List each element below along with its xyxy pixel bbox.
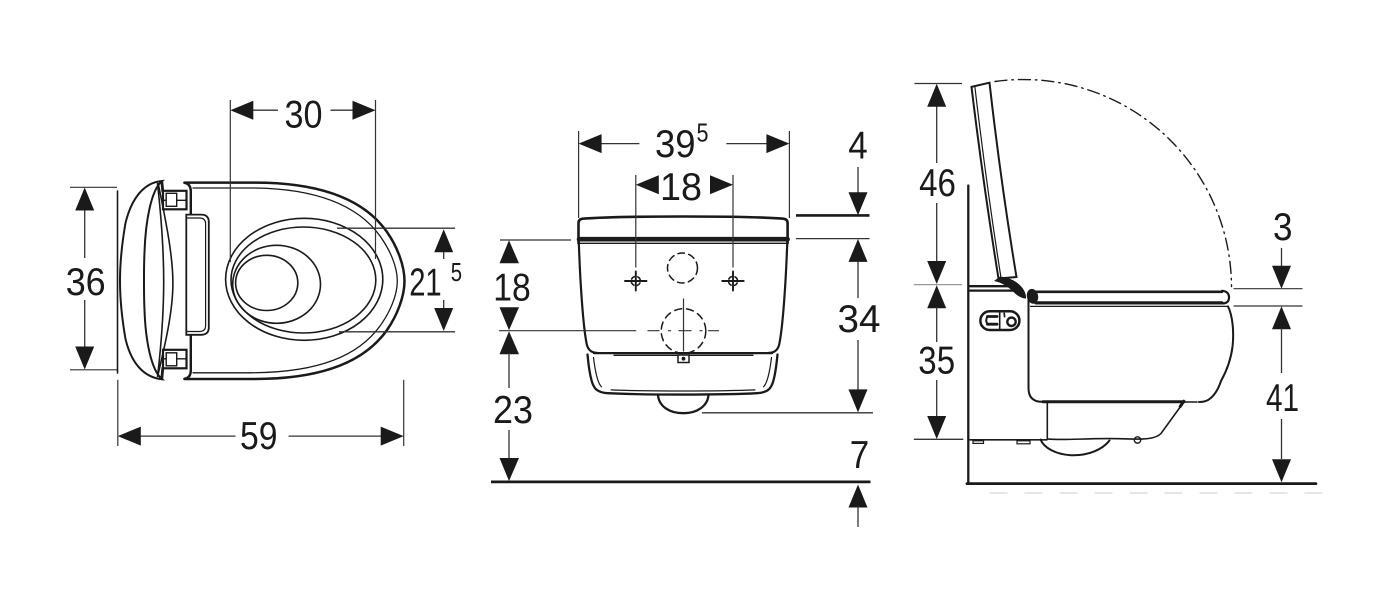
hinge bottom — [163, 350, 187, 369]
water supply dashed circle — [668, 253, 698, 283]
lid top outline — [579, 217, 788, 244]
faint floor ghost dashes — [990, 492, 1334, 494]
panel divider — [999, 311, 1001, 330]
lower shell — [1047, 403, 1182, 440]
drain circle vertical centerline — [683, 299, 685, 351]
lid open crescent — [120, 181, 162, 379]
drain dashed circle — [661, 309, 706, 354]
bolt right — [722, 272, 744, 291]
dimension 3 line and arrows — [1281, 248, 1283, 267]
dimension 46 line — [936, 105, 938, 163]
seat opening inner oval — [231, 227, 376, 333]
dimension 30 line — [251, 109, 278, 111]
dimension 7 lower arrow below floor — [849, 485, 868, 508]
shell junction blob — [1180, 401, 1184, 406]
svg-text:59: 59 — [240, 415, 278, 458]
shared tick 46/35 — [914, 284, 962, 286]
dimension 21.5 callout top — [337, 227, 455, 229]
body left edge — [579, 242, 597, 353]
svg-text:3: 3 — [1273, 206, 1293, 249]
dimension 18 left arrows — [500, 240, 520, 263]
dimension 4 line and arrows — [857, 167, 859, 193]
lid inner edge line — [975, 86, 1001, 276]
floor line middle view — [491, 480, 871, 483]
svg-text:18: 18 — [660, 166, 702, 209]
body top line — [1031, 305, 1228, 307]
bowl cavity oval — [233, 245, 321, 323]
dimension 34 bottom tick — [702, 412, 873, 414]
svg-text:5: 5 — [451, 257, 462, 287]
bottom cap inner side right — [764, 358, 772, 387]
latch detail — [678, 355, 689, 363]
panel right icon circle — [1007, 318, 1015, 326]
bowl bottom thick line — [1043, 400, 1184, 403]
svg-text:36: 36 — [66, 261, 106, 304]
back block bottom line — [970, 439, 1047, 441]
wall line — [117, 191, 119, 373]
svg-text:35: 35 — [918, 339, 955, 382]
dimension 18 left tick top — [500, 239, 571, 241]
cap top edge — [594, 352, 772, 354]
shared tick and centerline — [499, 330, 636, 332]
bottom cap inner side left — [594, 358, 602, 387]
body right edge — [769, 242, 787, 353]
lid tip connector bottom — [162, 368, 163, 379]
panel tick — [1003, 313, 1005, 316]
bolt left — [625, 272, 647, 291]
dimension 59 extension lines — [117, 380, 119, 446]
svg-text:34: 34 — [838, 298, 881, 341]
seat rear lines — [970, 285, 1011, 287]
svg-text:23: 23 — [493, 389, 533, 432]
seat bottom thick line — [1036, 301, 1222, 304]
bowl bottom thin continuation — [1184, 401, 1197, 403]
dimension 4 upper tick — [796, 214, 870, 217]
dimension 18 extension lines — [635, 175, 637, 268]
bottom cap seam — [614, 354, 753, 356]
bottom cap inner bottom line — [611, 390, 755, 391]
floor line — [967, 482, 1316, 485]
dimension 41 arrows and line — [1272, 306, 1291, 329]
bowl outline outer — [185, 183, 405, 379]
dimension 4 lower tick — [796, 238, 870, 240]
water pool oval — [236, 255, 298, 310]
drain dot — [1134, 437, 1140, 443]
dimension 39.5 line — [601, 143, 639, 145]
seat top line — [1036, 290, 1222, 293]
dimension 18 line arrows — [636, 175, 659, 194]
foot tab left — [973, 441, 984, 444]
dimension 30 extension lines — [229, 100, 231, 262]
svg-text:18: 18 — [493, 266, 531, 309]
hinge top — [163, 191, 187, 210]
seat opening outer oval — [226, 218, 383, 340]
hinge cover bracket — [186, 215, 209, 335]
svg-text:4: 4 — [848, 124, 868, 167]
bowl left edge bottom hook — [185, 334, 191, 379]
dimension 59 line — [140, 435, 236, 437]
dimension 34 arrows and line — [849, 239, 868, 262]
dimension 3 ticks — [1234, 288, 1303, 290]
svg-text:21: 21 — [409, 261, 442, 304]
dimension 21.5 line — [443, 252, 445, 259]
drain circle horizontal centerline dashes — [648, 330, 719, 332]
trap arc — [1041, 440, 1110, 456]
seat front rounded end — [1222, 291, 1229, 304]
body top edge line — [580, 242, 787, 244]
svg-text:5: 5 — [697, 118, 709, 148]
lid swing arc — [995, 80, 1232, 287]
dimension 35 bottom tick — [914, 438, 964, 440]
wall line — [967, 186, 969, 483]
control panel — [980, 311, 1019, 330]
svg-text:39: 39 — [655, 123, 696, 166]
dimension 36 ticks — [70, 186, 117, 188]
bottom cap outline — [588, 355, 778, 395]
body right edge — [1199, 306, 1233, 402]
dimension 21.5 callout bottom — [339, 331, 455, 333]
open lid — [972, 83, 1017, 279]
dimension 35 arrows and line — [927, 285, 946, 308]
bowl inner contour — [193, 188, 397, 373]
foot tab right — [1017, 441, 1030, 444]
dimension 39.5 extension lines — [578, 131, 580, 218]
hinge hook — [994, 277, 1026, 299]
lid edge sliver — [158, 184, 173, 378]
svg-text:46: 46 — [919, 162, 956, 205]
trap outlet semicircle — [658, 395, 709, 414]
bowl left edge top hook — [185, 183, 191, 216]
svg-text:41: 41 — [1266, 377, 1299, 420]
lid bottom thick band — [579, 237, 788, 242]
body left edge — [1029, 295, 1043, 402]
svg-text:7: 7 — [850, 434, 870, 477]
lid tip connector top — [162, 182, 163, 192]
dimension 36 line — [84, 208, 86, 258]
panel left icon bars — [988, 315, 998, 318]
dimension 23 arrows and line — [500, 331, 520, 354]
dimension 46 top tick — [915, 83, 963, 85]
svg-text:30: 30 — [285, 94, 323, 137]
hinge knob — [1025, 288, 1039, 305]
